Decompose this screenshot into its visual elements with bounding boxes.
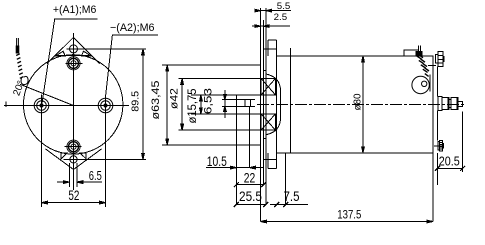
svg-text:22: 22	[244, 170, 256, 186]
svg-text:25.5: 25.5	[239, 188, 262, 204]
svg-text:−(A2);M6: −(A2);M6	[110, 22, 155, 34]
svg-text:ø80: ø80	[351, 93, 363, 110]
svg-text:ø15,75: ø15,75	[187, 89, 199, 124]
svg-text:7.5: 7.5	[284, 188, 300, 204]
svg-text:20.5: 20.5	[439, 155, 460, 169]
svg-text:ø63,45: ø63,45	[150, 81, 162, 120]
svg-text:6,53: 6,53	[203, 88, 215, 114]
svg-text:10.5: 10.5	[207, 153, 227, 169]
svg-text:+(A1);M6: +(A1);M6	[53, 4, 97, 16]
svg-text:2.5: 2.5	[274, 12, 288, 22]
svg-text:52: 52	[68, 187, 79, 203]
svg-text:5.5: 5.5	[277, 1, 291, 11]
svg-text:6.5: 6.5	[89, 168, 102, 183]
svg-text:ø42: ø42	[168, 88, 180, 109]
svg-text:89.5: 89.5	[130, 90, 141, 111]
svg-text:137.5: 137.5	[337, 208, 361, 222]
